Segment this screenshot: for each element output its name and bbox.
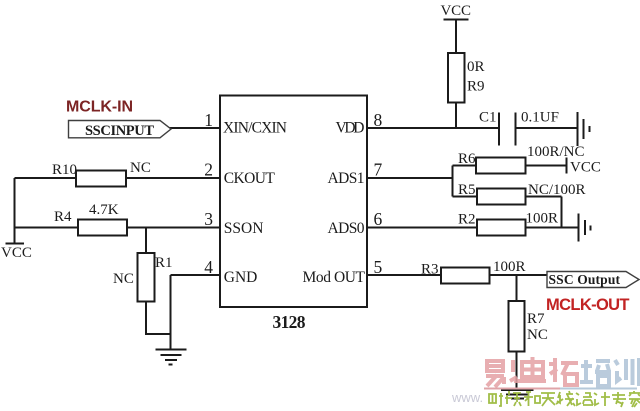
- svg-text:5: 5: [374, 257, 383, 277]
- svg-text:SSCINPUT: SSCINPUT: [85, 123, 154, 139]
- svg-text:R2: R2: [458, 212, 476, 228]
- svg-text:3: 3: [204, 209, 213, 229]
- svg-text:VCC: VCC: [441, 3, 472, 19]
- svg-text:VCC: VCC: [1, 245, 32, 261]
- svg-text:100R: 100R: [526, 211, 559, 227]
- svg-text:100R: 100R: [493, 259, 526, 275]
- svg-text:ADS0: ADS0: [328, 220, 365, 237]
- svg-text:MCLK-OUT: MCLK-OUT: [546, 296, 630, 314]
- svg-text:NC: NC: [130, 160, 151, 176]
- svg-text:R7: R7: [527, 311, 545, 327]
- svg-text:MCLK-IN: MCLK-IN: [66, 99, 133, 116]
- svg-text:7: 7: [374, 160, 383, 180]
- svg-text:GND: GND: [224, 269, 258, 286]
- svg-text:4.7K: 4.7K: [89, 202, 119, 218]
- svg-text:1: 1: [204, 110, 213, 130]
- svg-text:2: 2: [204, 160, 213, 180]
- svg-text:0.1UF: 0.1UF: [521, 110, 559, 126]
- svg-text:C1: C1: [479, 110, 497, 126]
- svg-text:VCC: VCC: [570, 160, 601, 176]
- svg-text:NC/100R: NC/100R: [528, 182, 586, 198]
- svg-text:4: 4: [204, 257, 213, 277]
- svg-text:100R/NC: 100R/NC: [527, 144, 585, 160]
- svg-text:CKOUT: CKOUT: [224, 170, 276, 187]
- svg-text:NC: NC: [113, 271, 134, 287]
- svg-text:NC: NC: [527, 327, 548, 343]
- svg-text:6: 6: [374, 209, 383, 229]
- svg-text:R3: R3: [421, 262, 439, 278]
- svg-text:R9: R9: [467, 79, 485, 95]
- svg-text:8: 8: [374, 110, 383, 130]
- svg-text:3128: 3128: [273, 312, 306, 332]
- svg-text:R10: R10: [52, 162, 77, 178]
- svg-text:R6: R6: [458, 151, 476, 167]
- svg-text:Mod OUT: Mod OUT: [303, 269, 366, 286]
- svg-text:0R: 0R: [467, 59, 485, 75]
- svg-text:VDD: VDD: [336, 120, 365, 137]
- svg-text:XIN/CXIN: XIN/CXIN: [223, 120, 287, 137]
- svg-text:www.: www.: [451, 390, 483, 405]
- svg-text:R1: R1: [155, 255, 173, 271]
- svg-text:R5: R5: [458, 182, 476, 198]
- svg-text:SSON: SSON: [224, 220, 264, 237]
- svg-text:R4: R4: [54, 209, 72, 225]
- svg-text:ADS1: ADS1: [328, 170, 365, 187]
- svg-text:SSC Output: SSC Output: [549, 272, 621, 287]
